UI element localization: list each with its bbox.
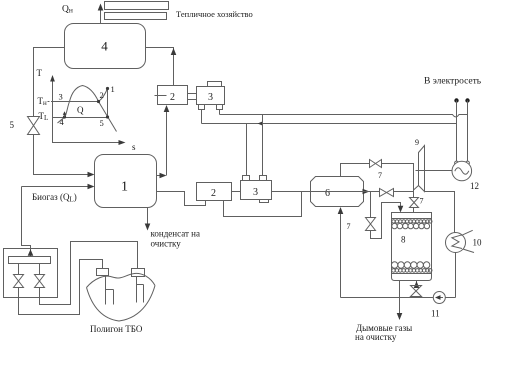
column 8 bbox=[392, 213, 432, 281]
wire left terminal down bbox=[456, 101, 458, 162]
wire through vessel6 with arrow bbox=[311, 189, 370, 195]
wire valve to column top bbox=[413, 208, 415, 213]
svg-text:Полигон ТБО: Полигон ТБО bbox=[90, 324, 143, 334]
block 2 lower bbox=[197, 183, 232, 201]
point 2 bbox=[97, 100, 100, 103]
turbine shaft bbox=[416, 170, 453, 172]
left gas well pipes bbox=[106, 277, 114, 305]
label 1 bbox=[111, 84, 115, 94]
label s bbox=[132, 142, 136, 152]
column top small bubbles bbox=[392, 220, 432, 223]
label 5 point bbox=[100, 118, 104, 128]
svg-text:В электросеть: В электросеть bbox=[424, 77, 482, 87]
label Дымовые газы на очистку bbox=[355, 323, 412, 342]
wire vessel6 arrow to valve2 bbox=[363, 191, 380, 193]
left well valve stem bbox=[18, 264, 20, 275]
label Полигон ТБО bbox=[90, 324, 143, 334]
label конденсат на очистку bbox=[151, 229, 200, 249]
wire left foot down bbox=[201, 110, 203, 124]
left valve wire down bbox=[19, 260, 103, 315]
label 4 bbox=[60, 117, 65, 127]
point 1 bbox=[106, 87, 109, 90]
label 10 bbox=[473, 238, 483, 248]
wire vessel6 bottom with up arrow bbox=[338, 207, 344, 298]
label 8 bbox=[401, 235, 406, 245]
svg-text:5: 5 bbox=[10, 120, 15, 130]
wire valve down around to column top left bbox=[371, 203, 404, 239]
svg-text:Q: Q bbox=[77, 105, 84, 115]
right gas well chimney bbox=[132, 269, 145, 277]
vessel6 top wire to valve bbox=[341, 164, 370, 177]
turbine exhaust wire to HX bbox=[425, 192, 455, 233]
label В электросеть bbox=[424, 77, 482, 87]
generator 12 bbox=[452, 161, 472, 181]
point 5 bbox=[106, 115, 109, 118]
label 11 bbox=[431, 309, 440, 319]
block 3 lower bbox=[241, 176, 272, 203]
arrow left on lower bus bbox=[258, 121, 264, 126]
svg-text:9: 9 bbox=[415, 138, 419, 147]
wire right foot down bbox=[219, 110, 221, 115]
svg-text:10: 10 bbox=[473, 238, 483, 248]
label 7 top valve bbox=[378, 171, 382, 180]
label Биогаз bbox=[32, 192, 77, 204]
svg-text:s: s bbox=[132, 142, 136, 152]
pump line wire bbox=[341, 297, 456, 299]
grid terminal dot left bbox=[454, 98, 458, 102]
generator terminal circle right bbox=[466, 161, 470, 165]
left gas well chimney bbox=[97, 269, 109, 276]
svg-text:Tн: Tн bbox=[38, 96, 48, 107]
wire block1 to lower block2 bbox=[157, 192, 206, 206]
valve 5 bbox=[28, 117, 40, 135]
upper bus wire with hop bbox=[220, 115, 468, 117]
svg-text:3: 3 bbox=[208, 92, 213, 103]
right valve wire down bbox=[40, 242, 138, 305]
wire bus to lower block3 left pin bbox=[246, 124, 248, 176]
block 4 bbox=[65, 24, 146, 69]
svg-text:3: 3 bbox=[59, 92, 63, 102]
label 2 bbox=[100, 90, 104, 100]
label 7 right vertical valve bbox=[420, 197, 424, 206]
label 7 left vertical valve bbox=[347, 222, 351, 231]
svg-text:2: 2 bbox=[170, 92, 175, 103]
svg-text:очистку: очистку bbox=[151, 239, 182, 249]
point 4 bbox=[63, 115, 66, 118]
Tн dashes bbox=[48, 101, 53, 103]
label Q bbox=[77, 105, 84, 115]
cycle line 2 to 1 bbox=[99, 89, 108, 102]
svg-text:7: 7 bbox=[420, 197, 424, 206]
block 3 upper bbox=[197, 82, 225, 110]
wire lower block2 bottom loop bbox=[224, 192, 302, 217]
svg-text:7: 7 bbox=[378, 171, 382, 180]
svg-text:T: T bbox=[37, 68, 43, 78]
heat exchanger 10 bbox=[446, 230, 475, 252]
svg-text:5: 5 bbox=[100, 118, 104, 128]
svg-text:3: 3 bbox=[253, 187, 258, 198]
svg-text:4: 4 bbox=[101, 39, 108, 54]
svg-text:на очистку: на очистку bbox=[355, 332, 397, 342]
label TL bbox=[39, 111, 49, 122]
landfill dome top edge bbox=[87, 273, 156, 287]
valve 7 second horizontal bbox=[380, 189, 394, 197]
label 12 bbox=[470, 181, 479, 191]
wire block4 left to valve5 bbox=[34, 48, 65, 117]
landfill dome outline bbox=[87, 286, 156, 322]
wire lower block3 to vessel6 bbox=[272, 191, 311, 193]
svg-text:1: 1 bbox=[121, 180, 128, 195]
svg-text:1: 1 bbox=[111, 84, 115, 94]
wires block2-block3 bbox=[188, 94, 197, 100]
well valve right bbox=[35, 275, 45, 288]
svg-text:Тепличное хозяйство: Тепличное хозяйство bbox=[176, 9, 253, 19]
wire right terminal down bbox=[467, 101, 469, 162]
greenhouse radiator rect 2 bbox=[105, 13, 167, 20]
Tн line bbox=[53, 101, 99, 103]
label T bbox=[37, 68, 43, 78]
greenhouse radiator rect 1 bbox=[105, 2, 169, 10]
label 5 bbox=[10, 120, 15, 130]
valve 7 top horizontal bbox=[370, 160, 382, 168]
label Тепличное хозяйство bbox=[176, 9, 253, 19]
svg-text:6: 6 bbox=[325, 188, 330, 199]
grid terminal dot right bbox=[465, 98, 469, 102]
svg-text:2: 2 bbox=[211, 188, 216, 199]
condensate wire down arrow bbox=[145, 208, 151, 231]
wire bus to lower block3 right pin bbox=[262, 115, 264, 176]
right gas well pipes bbox=[137, 277, 144, 303]
column bottom valve with up arrow bbox=[411, 281, 422, 298]
valve 7 vertical left bbox=[366, 218, 376, 231]
label Tн bbox=[38, 96, 48, 107]
wire valve5 to block1 with arrow bbox=[34, 135, 95, 178]
column bottom small bubbles bbox=[392, 269, 432, 273]
label 3 bbox=[59, 92, 63, 102]
turbine 9 bbox=[414, 146, 425, 192]
vessel 6 bbox=[311, 177, 364, 207]
wire block1 right to riser with arrow bbox=[157, 173, 167, 179]
svg-text:Qн: Qн bbox=[62, 5, 73, 15]
right well valve stem bbox=[39, 264, 41, 275]
svg-text:Биогаз (QL): Биогаз (QL) bbox=[32, 192, 77, 204]
lower bus wire bbox=[202, 123, 457, 125]
riser up to block2 with arrow bbox=[164, 105, 170, 176]
wire HX down to pump line bbox=[455, 253, 457, 298]
flue gas wire down arrow bbox=[397, 281, 403, 321]
manifold bar bbox=[9, 257, 51, 264]
column top big bubbles bbox=[392, 223, 430, 228]
svg-text:4: 4 bbox=[60, 117, 65, 127]
TL line bbox=[53, 117, 108, 119]
wire lower 2-3 bbox=[232, 191, 241, 193]
svg-text:11: 11 bbox=[431, 309, 440, 319]
svg-text:конденсат на: конденсат на bbox=[151, 229, 200, 239]
svg-text:7: 7 bbox=[347, 222, 351, 231]
wire valve to turbine junction bbox=[382, 164, 414, 198]
wire block4 right down to block2 with up arrow bbox=[146, 48, 177, 86]
block 2 upper bbox=[155, 86, 188, 105]
svg-text:2: 2 bbox=[100, 90, 104, 100]
wire valve2 to junction bbox=[394, 191, 414, 193]
point 4 up arrow bbox=[63, 111, 66, 116]
biogas wire into block1 bbox=[22, 184, 95, 190]
block 1 bbox=[95, 155, 157, 208]
pump 11 bbox=[433, 292, 445, 304]
label Qн bbox=[62, 5, 73, 15]
label 9 bbox=[415, 138, 419, 147]
collection box bbox=[4, 249, 58, 298]
generator terminal circle left bbox=[455, 161, 459, 165]
column bottom big bubbles bbox=[391, 262, 429, 268]
T-s diagram axes bbox=[50, 75, 125, 145]
saturation dome curve bbox=[58, 86, 117, 132]
well valve left bbox=[14, 275, 24, 288]
wire junction down branch valve bbox=[370, 192, 372, 218]
svg-text:12: 12 bbox=[470, 181, 479, 191]
biogas wire down to collection box bbox=[22, 187, 34, 257]
svg-text:8: 8 bbox=[401, 235, 406, 245]
wire heat output arrow up from block 4 bbox=[98, 4, 104, 24]
svg-text:TL: TL bbox=[39, 111, 49, 122]
cycle line 1 to 5 bbox=[107, 89, 109, 118]
valve 7 vertical right bbox=[410, 198, 419, 208]
